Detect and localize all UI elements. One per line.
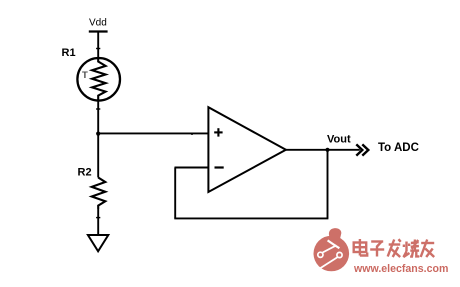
svg-text:T: T bbox=[82, 70, 88, 81]
minus input symbol bbox=[215, 166, 224, 168]
feedback wire bottom horizontal bbox=[174, 217, 328, 219]
char dian bbox=[354, 243, 367, 253]
svg-text:R1: R1 bbox=[62, 47, 76, 59]
wire thermistor to node bbox=[97, 100, 99, 133]
node Vout dot bbox=[325, 148, 329, 152]
svg-text:www.elecfans.com: www.elecfans.com bbox=[353, 263, 448, 275]
feedback wire right vertical bbox=[327, 150, 329, 219]
svg-text:To ADC: To ADC bbox=[378, 142, 419, 154]
watermark logo elecfans bbox=[314, 228, 350, 271]
feedback wire left vertical bbox=[174, 168, 176, 219]
svg-text:R2: R2 bbox=[78, 167, 92, 179]
wire node to op-amp plus input bbox=[98, 132, 208, 134]
svg-text:Vout: Vout bbox=[327, 133, 351, 145]
char zi bbox=[371, 240, 383, 242]
plus input symbol bbox=[214, 131, 222, 133]
watermark chinese title (stylised strokes) bbox=[354, 239, 435, 257]
op-amp U1 bbox=[208, 107, 286, 192]
char fa bbox=[389, 243, 401, 245]
connector chevron to ADC bbox=[356, 144, 368, 155]
char you bbox=[421, 242, 434, 244]
ground bbox=[88, 235, 108, 251]
power symbol Vdd bbox=[89, 18, 108, 32]
wire op-amp minus input bbox=[175, 167, 209, 169]
wire Vdd to thermistor bbox=[97, 32, 99, 60]
wire op-amp output bbox=[286, 149, 360, 151]
node junction dot bbox=[96, 132, 100, 136]
pin tick on Vdd wire bbox=[96, 48, 100, 50]
pin tick above ground bbox=[96, 217, 100, 219]
wire node to R2 bbox=[97, 133, 99, 177]
wire R2 to ground bbox=[97, 208, 99, 235]
pin tick below thermistor bbox=[96, 108, 100, 110]
resistor R2 bbox=[92, 178, 106, 209]
svg-text:Vdd: Vdd bbox=[89, 18, 107, 29]
pin tick on plus input wire bbox=[191, 133, 193, 136]
thermistor R1 bbox=[77, 58, 120, 101]
char shao bbox=[405, 242, 407, 252]
